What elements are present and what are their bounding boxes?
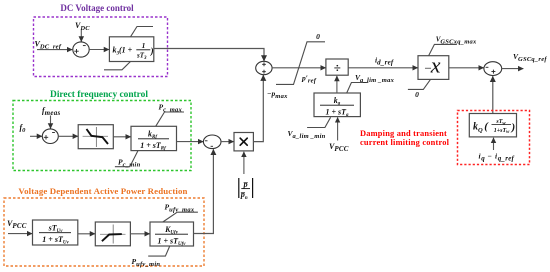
block kQ(sTw/(1+sTw)) [469,114,516,137]
block kRf/(1+sTRf) [131,126,177,150]
wire: -x to summing C2 [449,67,484,69]
svg-text:0: 0 [316,32,320,41]
dashed box: direct frequency control [13,101,191,171]
summing junction C2 [484,62,502,76]
saturation limit (bottom) of k3 block [104,62,131,70]
wire: f_meas down arrow [50,116,52,129]
block sTUv/(1+sTUv) [33,220,78,245]
svg-text:Voltage Dependent Active Power: Voltage Dependent Active Power Reduction [18,186,187,196]
wire: DB1 to kRf block [113,136,130,138]
wire: f_0 input arrow [30,135,42,137]
saturation limit (bottom) of KUfv [148,246,170,256]
divider block [326,59,348,75]
summing junction C1 [256,61,272,74]
dashed box: damping control [458,111,530,165]
wire: S1 to k3 block [89,49,109,51]
saturation limit (top) of kRf [156,112,184,126]
svg-text:Damping and transient: Damping and transient [360,129,447,138]
summing junction S2 [42,129,58,144]
block KUfv/(1+sTUfv) [150,222,194,246]
saturation symbol on p_ref [276,42,325,85]
wire: KUfv output up to S3 [194,151,214,234]
wire: ka up to divider [336,76,338,93]
wire: DB2 to KUfv [130,233,149,235]
saturation limit (top) of KUfv [163,212,198,222]
saturation limit (bottom) of -x [408,80,431,90]
svg-text:1 + sTa: 1 + sTa [325,107,349,118]
wire: p/pn up into multiplier [243,152,245,174]
svg-text:): ) [150,46,154,56]
wire: i_q - i_q_ref up into kQ [493,138,495,150]
saturation limit (bottom) of ka [307,117,331,127]
wire: k3 output to summing C1 (corner) [154,49,264,60]
block k3(1+1/sT3) [109,37,153,62]
svg-text:Direct frequency control: Direct frequency control [50,90,148,100]
wire: V_DC_ref input arrow [37,49,72,51]
wire: TUv to DB2 [78,233,95,235]
svg-text:): ) [511,122,516,134]
label |p/pn| [239,178,253,201]
svg-text:DC Voltage control: DC Voltage control [60,3,134,13]
dashed box: VDAPR [4,198,204,266]
svg-text:÷: ÷ [334,60,341,75]
block -x [418,56,449,80]
wire: S2 to deadband block [58,135,78,137]
wire: V_PCC input arrow [8,233,32,235]
saturation limit (top) of -x [429,44,457,55]
wire: multiplier output up to C1 [253,77,263,142]
svg-text:1: 1 [142,41,146,50]
svg-text:current limiting control: current limiting control [360,138,450,147]
wire: S3 to multiplier [221,141,234,143]
wire: C1 to divider [272,67,326,69]
dashed box: DC voltage control [34,17,168,77]
wire: V_PCC up to ka [337,117,339,140]
wire: kQ up to C2 [492,76,494,113]
saturation limit (top) of k3 block [131,27,154,37]
saturation limit (top) of ka [347,83,369,94]
summing junction S3 [203,135,221,149]
multiplier block X [234,133,253,151]
wire: V_DC down arrow [80,30,82,42]
wire: kRf to summing S3 [177,141,204,143]
deadband block DB1 [78,125,113,149]
wire: divider to -x block [348,67,418,69]
svg-text:0: 0 [415,90,419,99]
summing junction S1 [73,42,89,57]
block ka/(1+sTa) [314,93,360,117]
saturation limit (bottom) of kRf [115,151,138,167]
svg-text:p̅: p̅ [243,180,249,189]
deadband block DB2 [95,222,130,246]
wire: C2 output V_GSCq_ref [502,68,524,70]
